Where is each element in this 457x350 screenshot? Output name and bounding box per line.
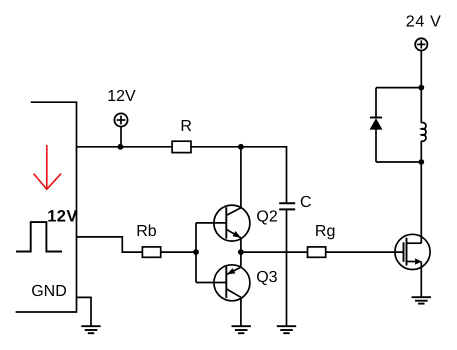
node 12V junction [118,144,124,150]
12V supply symbol [114,113,127,126]
resistor Rg [308,247,326,257]
diode D1 [370,88,383,162]
svg-text:12V: 12V [47,208,78,226]
signal source box outline [16,102,77,312]
ground (capacitor) [277,326,296,333]
wire Rg to gate [326,251,404,253]
svg-text:Rg: Rg [315,223,335,240]
red arrow [34,145,62,189]
wire Q2 emitter to junction [240,238,242,252]
node emitter junction [238,249,244,255]
capacitor C [279,203,295,209]
svg-text:Q3: Q3 [256,269,277,286]
wire junction to MOSFET drain [420,162,422,243]
wire Rb to base rail [161,251,196,253]
wire R to cap corner [191,147,287,204]
svg-text:Rb: Rb [136,223,157,240]
svg-text:Q2: Q2 [256,208,277,225]
wire Q3 emitter to junction [240,252,242,267]
node R output junction [238,144,244,150]
wire box to Rb [77,237,143,252]
pulse waveform [16,222,62,251]
wire emitter junction to Rg [241,251,308,253]
transistor Q2 [214,205,250,241]
wire bottom diode to junction [376,161,421,163]
wire Q2 collector drop [240,147,242,208]
svg-text:24 V: 24 V [406,14,442,31]
wire top junction to diode [376,87,421,89]
24V supply symbol [415,38,427,50]
wire 24V to top junction [420,51,422,88]
wire cap to ground [286,209,288,326]
MOSFET Q1 [395,234,430,269]
svg-text:GND: GND [31,283,67,300]
node top right junction [418,85,424,91]
resistor R [172,141,191,152]
node bottom right junction [418,159,424,165]
wire base rail [195,223,197,283]
transistor Q3 [214,265,250,301]
wire 12V supply drop [120,126,122,147]
svg-text:C: C [300,194,312,211]
inductor L1 [421,88,426,162]
wire Q3 base [196,282,226,284]
wire MOSFET source to ground [420,262,422,298]
resistor Rb [142,247,160,257]
node base rail junction [193,249,199,255]
ground (MOSFET) [412,297,431,303]
svg-text:R: R [180,118,192,135]
wire main top rail [77,146,173,148]
wire box GND to ground [77,297,92,326]
ground (Q3) [232,326,251,333]
ground (box) [81,326,100,333]
wire Q2 base [196,222,226,224]
svg-text:12V: 12V [107,88,136,105]
wire Q3 collector to ground [240,297,242,326]
